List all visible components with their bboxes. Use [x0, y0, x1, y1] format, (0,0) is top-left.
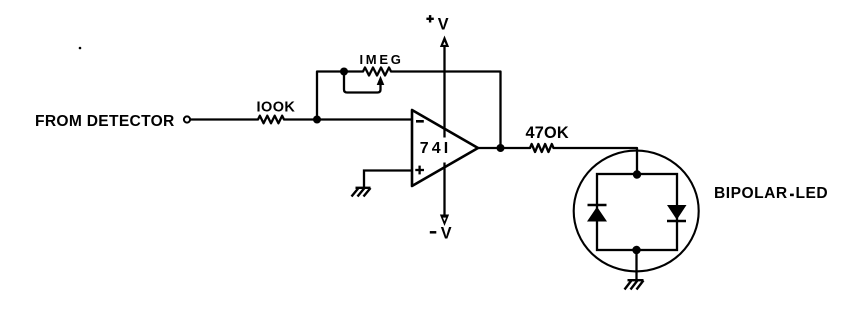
svg-text:V: V [438, 16, 449, 34]
svg-text:47OK: 47OK [526, 124, 569, 142]
svg-text:LED: LED [796, 185, 829, 202]
svg-text:IMEG: IMEG [360, 52, 404, 67]
svg-text:BIPOLAR: BIPOLAR [714, 185, 788, 202]
svg-text:V: V [441, 224, 452, 242]
svg-text:FROM DETECTOR: FROM DETECTOR [35, 113, 175, 130]
svg-text:74I: 74I [420, 140, 452, 157]
svg-text:IOOK: IOOK [257, 99, 296, 115]
